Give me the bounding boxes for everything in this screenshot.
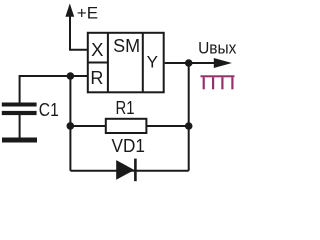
svg-text:R: R xyxy=(90,68,103,88)
svg-text:R1: R1 xyxy=(116,98,135,118)
svg-text:+E: +E xyxy=(77,4,98,23)
svg-text:SM: SM xyxy=(113,36,140,56)
svg-text:Uвых: Uвых xyxy=(198,40,237,58)
svg-text:C1: C1 xyxy=(39,100,59,120)
svg-text:X: X xyxy=(91,39,103,60)
svg-text:VD1: VD1 xyxy=(112,136,145,156)
svg-text:Y: Y xyxy=(147,53,158,72)
